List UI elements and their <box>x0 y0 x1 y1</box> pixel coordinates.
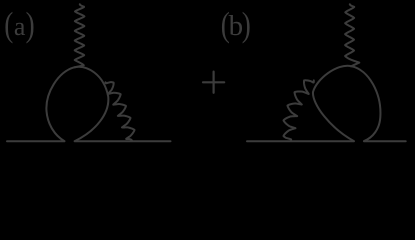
fermion loop of diagram (b) <box>313 66 380 141</box>
fermion line right segment (a) <box>75 140 171 142</box>
fermion line right segment (b) <box>364 140 406 142</box>
photon, internal of diagram (b) <box>283 80 313 140</box>
fermion line left segment (b) <box>247 140 354 142</box>
fermion line left segment (a) <box>7 140 64 142</box>
svg-text:): ) <box>26 5 35 44</box>
label (a) <box>4 5 34 44</box>
photon, external leg of diagram (b) <box>345 4 359 66</box>
photon, external leg of diagram (a) <box>75 4 85 67</box>
svg-text:(: ( <box>4 5 13 44</box>
svg-text:a: a <box>14 12 26 41</box>
plus sign <box>203 72 224 93</box>
fermion loop of diagram (a) <box>46 67 108 141</box>
label (b) <box>221 5 251 44</box>
photon, internal of diagram (a) <box>106 82 135 141</box>
svg-text:): ) <box>242 5 251 44</box>
